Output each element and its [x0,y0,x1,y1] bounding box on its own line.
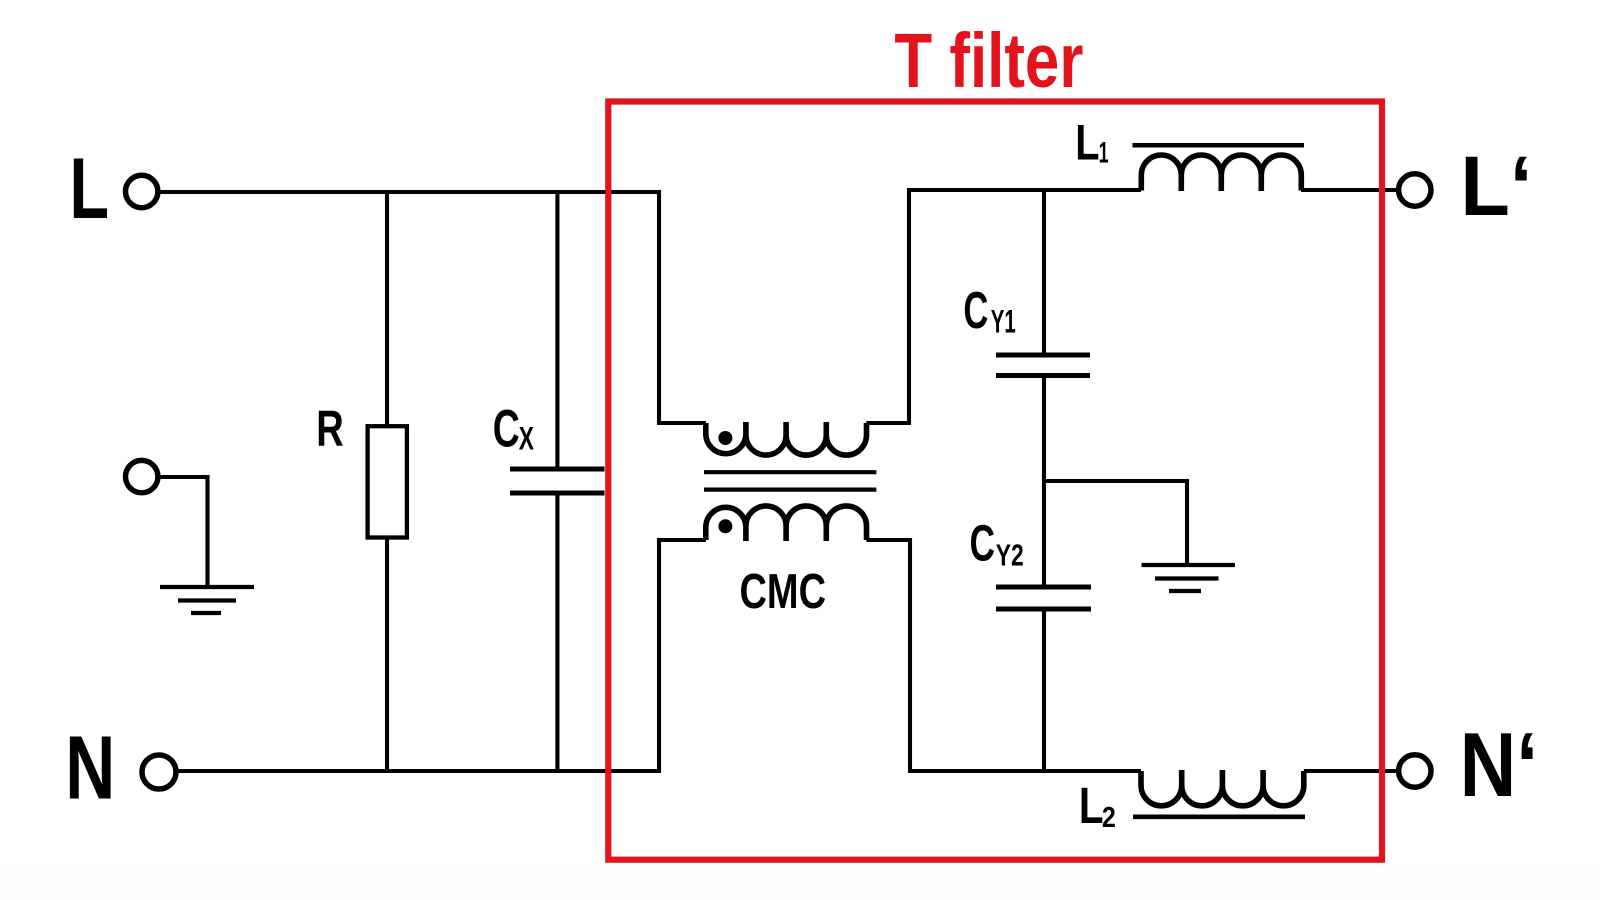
svg-text:X: X [519,421,535,457]
svg-text:L: L [1075,115,1099,171]
svg-text:C: C [493,400,520,459]
svg-text:L‘: L‘ [1460,139,1532,233]
svg-text:C: C [963,281,988,339]
svg-text:C: C [970,515,996,572]
svg-text:Y1: Y1 [991,304,1016,340]
svg-text:L: L [70,141,110,237]
svg-text:R: R [316,400,344,457]
svg-text:L: L [1079,777,1104,834]
svg-text:1: 1 [1099,137,1109,170]
svg-text:CMC: CMC [740,565,827,619]
svg-text:T filter: T filter [894,18,1083,104]
svg-text:N: N [65,719,115,819]
svg-text:Y2: Y2 [996,538,1024,573]
svg-text:N‘: N‘ [1460,715,1539,816]
svg-text:2: 2 [1102,802,1116,834]
